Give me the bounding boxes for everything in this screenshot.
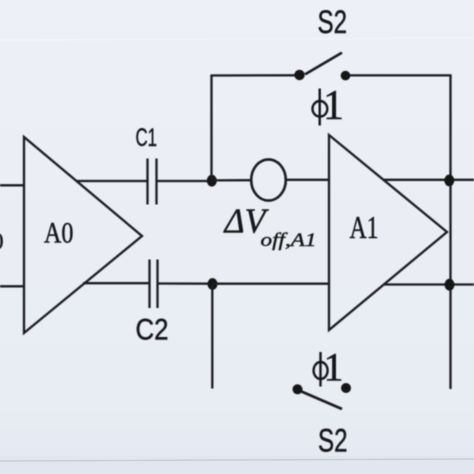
switch S2 top lever — [305, 53, 342, 75]
svg-text:C2: C2 — [136, 314, 169, 347]
wire: N2 to A1 bottom input — [212, 283, 329, 285]
svg-text:off,A1: off,A1 — [261, 230, 317, 251]
svg-text:S2: S2 — [318, 423, 348, 459]
svg-text:A1: A1 — [350, 209, 379, 245]
wire: N1 to voltage source — [212, 179, 252, 181]
svg-text:S2: S2 — [318, 4, 348, 40]
wire: A1 top output — [384, 179, 474, 181]
node N1 junction dot — [207, 175, 217, 187]
wire: voltage source to A1 top input — [286, 179, 329, 181]
wire: A1 bottom output — [383, 283, 474, 285]
switch S2 bottom lever — [302, 392, 343, 410]
wire: C2 to node N2 — [159, 282, 214, 285]
op-amp A0 — [24, 137, 142, 333]
label phi1 top — [313, 83, 345, 129]
svg-text:A0: A0 — [44, 217, 74, 250]
capacitor C1 — [148, 159, 157, 205]
svg-text:1: 1 — [323, 83, 344, 129]
switch S2 top right contact — [341, 71, 351, 81]
label phi1 bottom — [314, 344, 344, 389]
svg-text:0: 0 — [0, 229, 4, 254]
wire: right feedback vertical — [449, 75, 451, 389]
node: bottom output junction dot — [445, 279, 455, 291]
voltage source ΔVoff,A1 — [251, 159, 286, 200]
wire: top rail left segment — [210, 74, 296, 76]
wire: top rail right segment — [349, 74, 452, 76]
switch S2 bottom left contact — [293, 384, 303, 394]
svg-text:C1: C1 — [136, 124, 158, 152]
svg-text:1: 1 — [324, 344, 344, 389]
node N2 junction dot — [208, 278, 218, 290]
node: top output junction dot — [444, 175, 454, 187]
wire: A0 bottom output to C2 — [83, 282, 149, 284]
label ΔV off,A1 — [223, 202, 317, 251]
switch S2 bottom right contact — [341, 383, 351, 393]
op-amp A1 — [329, 135, 447, 330]
wire: left input bottom to A0 — [0, 285, 24, 287]
wire: C1 to node N1 — [158, 180, 213, 182]
wire: A0 top output to C1 — [76, 180, 147, 182]
wire: N1 vertical up to top rail — [210, 76, 212, 181]
wire: N2 vertical down to bottom switch level — [211, 284, 213, 389]
capacitor C2 — [150, 260, 158, 309]
switch S2 top left contact — [294, 70, 304, 80]
wire: left input top to A0 — [0, 184, 24, 186]
